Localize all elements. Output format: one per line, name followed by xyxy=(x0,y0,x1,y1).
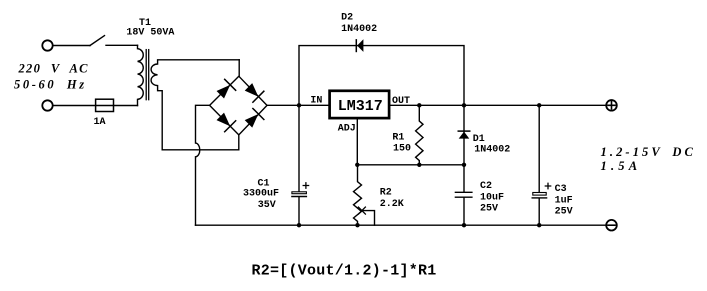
svg-text:R2=[(Vout/1.2)-1]*R1: R2=[(Vout/1.2)-1]*R1 xyxy=(252,263,437,280)
svg-text:D1: D1 xyxy=(473,134,485,145)
svg-text:OUT: OUT xyxy=(392,96,410,107)
svg-text:1.2-15V DC: 1.2-15V DC xyxy=(601,145,696,159)
svg-text:C2: C2 xyxy=(480,181,492,192)
svg-text:C3: C3 xyxy=(555,184,567,195)
svg-text:50-60 Hz: 50-60 Hz xyxy=(14,78,87,92)
svg-text:1uF: 1uF xyxy=(555,196,573,207)
svg-text:R2: R2 xyxy=(380,188,392,199)
svg-text:150: 150 xyxy=(393,144,411,155)
svg-text:10uF: 10uF xyxy=(480,193,504,204)
svg-text:1A: 1A xyxy=(94,117,106,128)
svg-text:18V 50VA: 18V 50VA xyxy=(126,28,174,39)
svg-text:1.5A: 1.5A xyxy=(601,159,642,173)
svg-text:IN: IN xyxy=(310,95,322,106)
svg-text:D2: D2 xyxy=(341,13,353,24)
svg-text:LM317: LM317 xyxy=(338,98,383,115)
svg-text:3300uF: 3300uF xyxy=(243,189,279,200)
svg-text:220 V AC: 220 V AC xyxy=(18,62,89,76)
svg-text:R1: R1 xyxy=(392,132,404,143)
svg-text:25V: 25V xyxy=(480,204,498,215)
svg-text:2.2K: 2.2K xyxy=(380,199,404,210)
svg-text:35V: 35V xyxy=(258,200,276,211)
svg-text:1N4002: 1N4002 xyxy=(474,145,510,156)
svg-text:ADJ: ADJ xyxy=(338,123,356,134)
svg-text:1N4002: 1N4002 xyxy=(341,24,377,35)
svg-text:25V: 25V xyxy=(555,206,573,217)
